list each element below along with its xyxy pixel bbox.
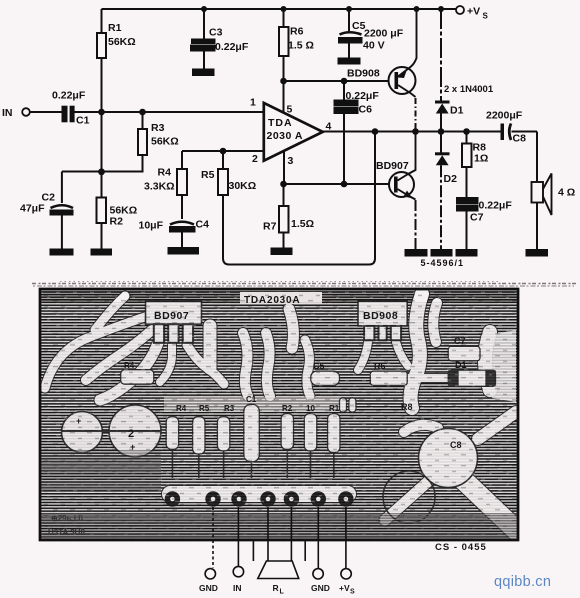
svg-text:1.5 Ω: 1.5 Ω <box>288 40 314 52</box>
svg-text:+V: +V <box>339 583 350 593</box>
svg-text:2: 2 <box>252 153 258 165</box>
svg-text:R7: R7 <box>263 221 277 233</box>
svg-text:4: 4 <box>326 121 332 133</box>
svg-text:⊕29ь i.ü: ⊕29ь i.ü <box>51 514 83 523</box>
svg-text:1Ω: 1Ω <box>474 153 488 165</box>
svg-text:C1: C1 <box>76 115 90 127</box>
svg-text:2 x 1N4001: 2 x 1N4001 <box>444 84 494 95</box>
svg-text:10: 10 <box>306 404 315 413</box>
svg-text:TDA2030A: TDA2030A <box>244 295 300 306</box>
svg-text:56KΩ: 56KΩ <box>151 136 179 148</box>
svg-text:2200 μF: 2200 μF <box>364 28 404 40</box>
svg-text:+: + <box>130 442 135 452</box>
svg-text:C6: C6 <box>359 104 373 116</box>
svg-text:C5: C5 <box>313 361 325 371</box>
svg-text:3.3KΩ: 3.3KΩ <box>144 181 175 193</box>
svg-text:BD907: BD907 <box>376 160 409 172</box>
svg-text:+V: +V <box>467 6 480 18</box>
svg-text:R8: R8 <box>401 402 413 412</box>
svg-text:3: 3 <box>288 155 294 167</box>
svg-text:C7: C7 <box>454 336 466 346</box>
svg-text:R2: R2 <box>110 216 124 228</box>
svg-text:R3: R3 <box>224 404 235 413</box>
svg-text:R4: R4 <box>158 167 172 179</box>
svg-text:GND: GND <box>199 583 218 593</box>
svg-text:0.22μF: 0.22μF <box>479 200 513 212</box>
svg-text:5-4596/1: 5-4596/1 <box>421 258 465 268</box>
svg-text:C8: C8 <box>513 133 527 145</box>
svg-text:R1: R1 <box>329 404 340 413</box>
svg-text:56KΩ: 56KΩ <box>108 36 136 48</box>
svg-text:2030 A: 2030 A <box>267 130 303 142</box>
svg-text:Ü3TA 3Ü8: Ü3TA 3Ü8 <box>48 528 85 537</box>
svg-text:BD908: BD908 <box>363 310 398 322</box>
svg-text:40 V: 40 V <box>363 40 385 52</box>
svg-text:2200μF: 2200μF <box>486 110 523 122</box>
svg-text:47μF: 47μF <box>20 203 45 215</box>
svg-text:CS - 0455: CS - 0455 <box>435 542 487 553</box>
svg-text:S: S <box>350 589 355 596</box>
svg-text:D1: D1 <box>455 360 467 370</box>
svg-text:R4: R4 <box>124 361 135 370</box>
svg-text:4 Ω: 4 Ω <box>558 187 575 199</box>
svg-text:BD908: BD908 <box>347 68 380 80</box>
svg-text:D2: D2 <box>444 173 458 185</box>
svg-text:GND: GND <box>311 583 330 593</box>
svg-text:0.22μF: 0.22μF <box>52 90 86 102</box>
svg-text:0.22μF: 0.22μF <box>346 90 380 102</box>
svg-text:0.22μF: 0.22μF <box>215 41 249 53</box>
svg-text:1.5Ω: 1.5Ω <box>291 218 314 230</box>
svg-text:5: 5 <box>287 104 293 116</box>
svg-text:C7: C7 <box>470 212 484 224</box>
svg-text:R6: R6 <box>290 26 304 38</box>
svg-text:IN: IN <box>2 107 13 119</box>
svg-text:2: 2 <box>128 428 134 440</box>
svg-text:R4: R4 <box>176 404 187 413</box>
svg-text:30KΩ: 30KΩ <box>229 180 257 192</box>
svg-text:R5: R5 <box>199 404 210 413</box>
svg-text:1: 1 <box>250 97 256 109</box>
svg-text:IN: IN <box>233 583 242 593</box>
svg-text:C3: C3 <box>209 27 223 39</box>
svg-text:R: R <box>273 583 279 593</box>
svg-text:C8: C8 <box>450 440 462 450</box>
svg-text:BD907: BD907 <box>154 310 189 322</box>
svg-text:R2: R2 <box>282 404 293 413</box>
svg-text:R5: R5 <box>201 169 215 181</box>
svg-text:C4: C4 <box>196 219 210 231</box>
svg-text:R3: R3 <box>151 122 165 134</box>
svg-text:C1: C1 <box>246 395 257 404</box>
svg-text:TDA: TDA <box>268 117 293 129</box>
svg-text:L: L <box>280 589 285 596</box>
svg-text:R1: R1 <box>108 22 122 34</box>
svg-text:D1: D1 <box>450 105 464 117</box>
svg-text:S: S <box>483 12 489 21</box>
svg-text:R6: R6 <box>374 361 386 371</box>
svg-text:+: + <box>76 416 81 426</box>
svg-text:10μF: 10μF <box>139 220 164 232</box>
svg-text:qqibb.cn: qqibb.cn <box>494 574 551 590</box>
